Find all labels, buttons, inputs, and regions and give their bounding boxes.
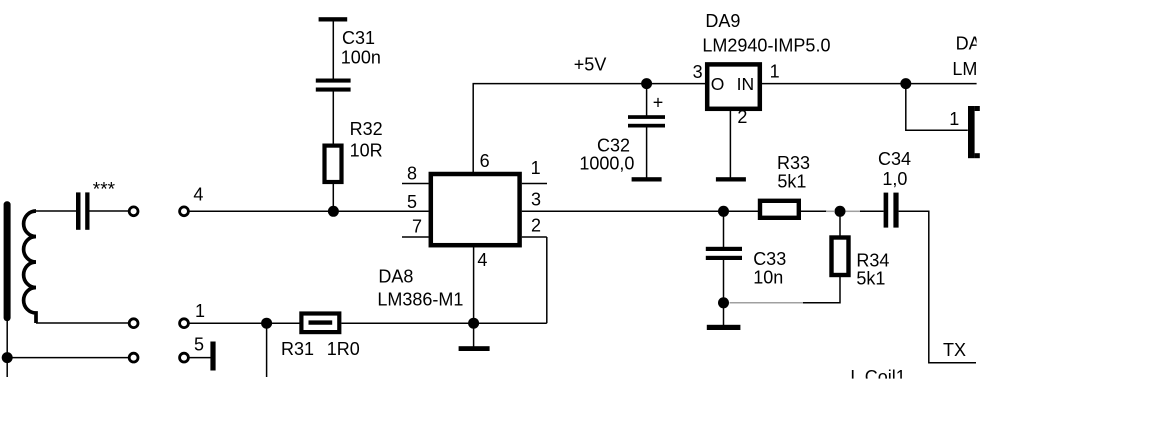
junction node below terminal1 [261, 318, 272, 329]
svg-text:1R0: 1R0 [327, 339, 360, 359]
pad circle top-left [129, 207, 138, 216]
pin 1 wire DA9 [762, 83, 977, 85]
wire DA8 pin3 output row [522, 210, 827, 212]
terminal bar pin5 [210, 342, 215, 371]
wire node to C32 [646, 84, 648, 116]
terminal 5 [180, 353, 189, 362]
+5V rail [473, 83, 708, 85]
junction ground node [468, 318, 479, 329]
svg-text:4: 4 [477, 250, 487, 270]
antenna rod [4, 201, 11, 321]
svg-text:1,0: 1,0 [882, 169, 907, 189]
svg-text:5: 5 [194, 335, 204, 355]
svg-text:7: 7 [412, 217, 422, 237]
wire junction to C34 [860, 210, 884, 212]
capacitor C32 plates [628, 115, 665, 119]
pad circle bottom-left [129, 353, 138, 362]
wire terminal5 stub [189, 357, 211, 359]
clip right edge [977, 0, 1155, 442]
svg-text:R34: R34 [856, 250, 889, 270]
svg-text:1: 1 [195, 301, 205, 321]
wire bar to C31 [332, 20, 334, 79]
wire rod bottom to junction and below [6, 320, 8, 377]
svg-text:2: 2 [737, 107, 747, 127]
svg-text:LM386-M1: LM386-M1 [377, 289, 463, 309]
DA10 box bottom stub [975, 153, 980, 158]
svg-text:C33: C33 [753, 249, 786, 269]
wire C34 to corner [899, 210, 930, 212]
junction R32 node [328, 206, 339, 217]
svg-text:C31: C31 [342, 28, 375, 48]
wire terminal1 to R31 [189, 322, 301, 324]
svg-text:R32: R32 [350, 119, 383, 139]
terminal 4 [180, 207, 189, 216]
pin 6 line [472, 84, 474, 174]
svg-text:5k1: 5k1 [856, 269, 885, 289]
svg-text:LM2940-IMP5.0: LM2940-IMP5.0 [702, 36, 830, 56]
svg-text:3: 3 [693, 62, 703, 82]
voltage regulator DA9 box [707, 64, 760, 108]
wire down to TX [929, 211, 976, 362]
voltage regulator DA10 box left edge (clipped) [968, 106, 975, 158]
svg-text:C34: C34 [878, 149, 911, 169]
svg-text:+5V: +5V [574, 55, 607, 75]
junction R34 node [835, 206, 846, 217]
clip bottom edge [0, 379, 1155, 442]
junction bottom-left [2, 352, 13, 363]
ground bar C33 [707, 325, 741, 330]
pin 2 wire DA9 [729, 109, 731, 178]
pad circle mid-left [129, 319, 138, 328]
gray wire right of junction [845, 210, 860, 212]
svg-text:R33: R33 [777, 153, 810, 173]
junction DA10 node [900, 78, 911, 89]
wire junction1 to C33 [723, 211, 725, 247]
wire pin2 bottom to ground node [474, 322, 547, 324]
wire C32 to bar [646, 128, 648, 179]
wire junction down [266, 323, 268, 377]
gray wire junction3 right [730, 302, 804, 304]
terminal bar DA9 [716, 177, 746, 181]
svg-text:6: 6 [480, 151, 490, 171]
wire to R34 bottom [803, 277, 840, 303]
capacitor C31 top terminal bar [319, 17, 348, 21]
svg-text:3: 3 [531, 190, 541, 210]
capacitor *** plates [76, 192, 81, 229]
pin 1 line [522, 183, 547, 185]
svg-text:O: O [711, 74, 725, 94]
wire terminal4 to DA8 pin5 [189, 210, 429, 212]
svg-text:IN: IN [737, 74, 755, 94]
svg-text:DA8: DA8 [378, 267, 413, 287]
R31 inner bar [309, 320, 333, 324]
svg-text:TX: TX [943, 340, 966, 360]
svg-text:+: + [653, 93, 664, 113]
wire coil bottom to pad [36, 322, 129, 324]
terminal bar C32 [632, 177, 662, 181]
svg-text:R31: R31 [281, 339, 314, 359]
svg-text:8: 8 [407, 163, 417, 183]
pin 4 line [473, 245, 475, 323]
junction C33 node [718, 206, 729, 217]
svg-text:5k1: 5k1 [777, 172, 806, 192]
wire C31 to R32 [332, 92, 334, 145]
wire R34 top [839, 211, 841, 236]
DA10 box top stub [975, 106, 980, 111]
pin 2 line [522, 236, 547, 238]
wire R32 to node [332, 184, 334, 212]
ground bar DA8 [459, 346, 490, 351]
svg-text:100n: 100n [341, 47, 381, 67]
svg-text:1: 1 [770, 62, 780, 82]
resistor R33 [760, 201, 799, 218]
capacitor C31 plates [316, 79, 351, 83]
terminal 1 [180, 319, 189, 328]
resistor R34 [832, 238, 849, 276]
resistor R32 [325, 146, 342, 182]
wire C33 to junction3 [723, 260, 725, 326]
gray wire left of junction [826, 210, 834, 212]
junction C32 node [641, 78, 652, 89]
svg-text:10n: 10n [753, 268, 783, 288]
op-amp U DA8 box [431, 174, 520, 245]
capacitor C33 plates [706, 247, 742, 251]
wire node to ground [473, 323, 475, 347]
svg-text:DA9: DA9 [705, 11, 740, 31]
wire coil top to capacitor [35, 210, 77, 212]
svg-text:2: 2 [531, 216, 541, 236]
svg-text:4: 4 [193, 185, 203, 205]
inductor coil [24, 211, 36, 323]
wire DA10 down [906, 84, 968, 131]
wire capacitor to pad [89, 210, 129, 212]
pin 8 line [402, 183, 429, 185]
wire R31 to ground node [341, 322, 473, 324]
wire pin2 down [546, 237, 548, 323]
wire bottom row [7, 357, 128, 359]
svg-text:1: 1 [949, 109, 959, 129]
capacitor C34 plates [884, 193, 889, 228]
svg-text:1000,0: 1000,0 [579, 153, 634, 173]
pin 7 line [402, 236, 429, 238]
resistor R31 [301, 314, 339, 333]
svg-text:5: 5 [407, 192, 417, 212]
svg-text:10R: 10R [350, 141, 383, 161]
svg-text:***: *** [93, 179, 116, 200]
svg-text:1: 1 [531, 158, 541, 178]
junction C33 bottom [718, 297, 729, 308]
